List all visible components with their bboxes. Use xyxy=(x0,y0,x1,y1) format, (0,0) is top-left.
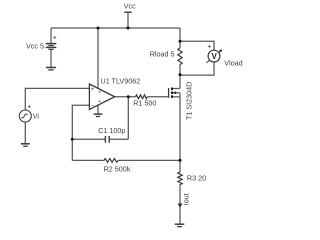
svg-text:+: + xyxy=(53,36,57,42)
svg-text:Rload 5: Rload 5 xyxy=(150,49,175,58)
svg-text:R2 500k: R2 500k xyxy=(104,164,131,173)
svg-text:Vcc: Vcc xyxy=(124,2,136,11)
svg-text:Vload: Vload xyxy=(224,59,242,68)
svg-text:V: V xyxy=(212,52,218,61)
svg-text:+: + xyxy=(91,87,95,93)
svg-text:C1 100p: C1 100p xyxy=(98,126,125,135)
svg-text:Iout: Iout xyxy=(181,193,190,205)
svg-text:R1 500: R1 500 xyxy=(133,98,156,107)
svg-text:Vi: Vi xyxy=(33,111,40,120)
svg-text:+: + xyxy=(28,105,32,111)
svg-text:Vcc 5: Vcc 5 xyxy=(26,42,44,51)
svg-text:T1 SI2304D: T1 SI2304D xyxy=(185,82,194,120)
svg-text:−: − xyxy=(91,104,95,110)
svg-text:+: + xyxy=(208,45,212,51)
svg-text:U1 TLV9062: U1 TLV9062 xyxy=(101,77,141,86)
svg-text:R3 20: R3 20 xyxy=(187,174,206,183)
